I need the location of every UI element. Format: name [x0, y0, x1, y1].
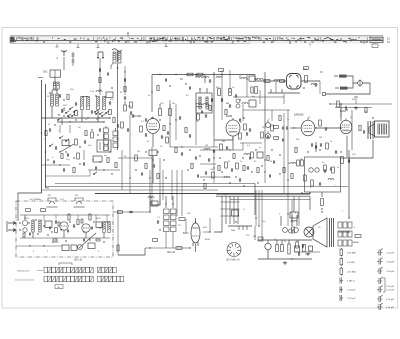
- resistor R62: [41, 209, 46, 212]
- inductor L2: [118, 52, 121, 63]
- ground: [283, 261, 287, 265]
- wire: [52, 89, 57, 91]
- wire: [346, 136, 348, 157]
- wire: [24, 215, 26, 220]
- wire: [152, 74, 255, 76]
- capacitor C54: [229, 104, 230, 107]
- capacitor C60: [335, 150, 336, 153]
- wire: [232, 137, 234, 150]
- resistor R2: [109, 110, 112, 115]
- junction: [117, 67, 118, 68]
- svg-text:osc: osc: [104, 155, 107, 157]
- shield coil: [47, 198, 58, 207]
- switch contact S4: [94, 110, 98, 113]
- wire: [199, 88, 201, 93]
- resistor R37: [359, 126, 361, 131]
- junction: [159, 119, 160, 120]
- wire: [46, 187, 50, 189]
- junction: [235, 176, 236, 177]
- resistor R45: [324, 165, 327, 171]
- FM tuner unit box: [16, 201, 113, 257]
- capacitor C62: [49, 227, 50, 230]
- resistor R101: [124, 87, 126, 92]
- resistor R6: [130, 102, 133, 108]
- capacitor C25: [320, 143, 321, 146]
- wire: [351, 110, 353, 150]
- wire: [216, 194, 310, 196]
- junction: [264, 80, 265, 81]
- resistor R28: [280, 80, 285, 83]
- wire: [85, 232, 87, 238]
- wire: [51, 106, 53, 118]
- junction: [152, 159, 153, 160]
- junction: [65, 151, 66, 152]
- junction: [89, 239, 90, 240]
- wire: [172, 196, 174, 208]
- wire: [315, 127, 340, 129]
- junction: [340, 151, 341, 152]
- resistor R64: [117, 245, 119, 251]
- wire: [46, 175, 90, 177]
- capacitor C18: [247, 166, 248, 169]
- inductor L21: [257, 79, 263, 81]
- junction: [103, 121, 104, 122]
- resistor R13: [166, 137, 169, 143]
- tube V3: [301, 118, 315, 136]
- resistor R65: [67, 95, 69, 100]
- junction: [63, 99, 64, 100]
- junction: [301, 192, 302, 193]
- wire: [214, 136, 233, 140]
- junction: [264, 171, 265, 172]
- resistor R70: [73, 168, 75, 173]
- switch contact S16: [101, 114, 105, 117]
- junction: [43, 245, 44, 246]
- capacitor C36: [55, 220, 56, 223]
- resistor R93: [283, 168, 285, 173]
- junction: [111, 173, 112, 174]
- legend symbol: [377, 286, 383, 293]
- junction: [255, 217, 256, 218]
- resistor R80: [204, 184, 206, 189]
- junction: [181, 146, 182, 147]
- resistor R18: [197, 114, 200, 120]
- junction: [79, 163, 80, 164]
- wire: [246, 90, 248, 97]
- wire: [106, 215, 108, 221]
- wire: [162, 170, 164, 200]
- inductor L25: [328, 179, 334, 181]
- resistor R35: [337, 101, 340, 107]
- wire: [270, 89, 272, 93]
- capacitor C22: [345, 106, 346, 109]
- legend symbol: [377, 277, 383, 284]
- tube socket (underside view): [227, 243, 241, 257]
- wire: [281, 89, 283, 93]
- capacitor C77: [201, 111, 202, 114]
- lamp LA1: [358, 80, 363, 87]
- switch contact S14: [73, 110, 77, 113]
- junction: [29, 245, 30, 246]
- wire: [169, 100, 171, 147]
- junction: [189, 247, 190, 248]
- junction: [279, 173, 280, 174]
- svg-text:Drucktasten-Kontakte: Drucktasten-Kontakte: [15, 279, 35, 282]
- wire: [55, 183, 255, 185]
- wire: [41, 80, 43, 193]
- resistor R4: [91, 132, 94, 138]
- speaker (bottom) LS2: [304, 227, 314, 237]
- junction: [95, 95, 96, 96]
- legend symbol: [340, 278, 343, 284]
- resistor R66: [113, 118, 115, 123]
- junction: [340, 127, 341, 128]
- junction: [151, 117, 152, 118]
- wire: [372, 140, 374, 158]
- wire: [38, 77, 43, 79]
- wire: [348, 150, 350, 218]
- switch table row 1: [44, 267, 116, 273]
- resistor R84: [153, 239, 158, 242]
- svg-text:UCH81: UCH81: [133, 114, 142, 118]
- legend symbol: [377, 258, 383, 265]
- wire: [159, 158, 161, 170]
- capacitor C61: [157, 220, 158, 223]
- output transformer T2: [368, 121, 373, 139]
- capacitor C68: [197, 175, 198, 178]
- junction: [109, 117, 110, 118]
- switch contact S11: [93, 172, 97, 175]
- junction: [279, 154, 280, 155]
- junction: [51, 231, 52, 232]
- wire: [54, 77, 56, 82]
- tube V4: [340, 118, 352, 133]
- wire: [69, 125, 71, 133]
- capacitor C14: [249, 128, 250, 131]
- wire: [259, 90, 261, 104]
- inductor L29: [39, 220, 41, 232]
- lamp coils: [334, 76, 339, 88]
- wire: [43, 215, 45, 221]
- wire: [97, 110, 99, 122]
- capacitor C5: [130, 111, 131, 114]
- legend symbol: [377, 303, 383, 310]
- junction: [87, 117, 88, 118]
- junction: [229, 149, 230, 150]
- svg-text:2M: 2M: [262, 127, 265, 129]
- resistor R48: [355, 235, 361, 238]
- junction: [59, 151, 60, 152]
- capacitor C65: [29, 233, 30, 236]
- inductor L26: [291, 221, 297, 223]
- inductor L17: [203, 104, 209, 106]
- wire: [290, 127, 301, 129]
- junction: [165, 177, 166, 178]
- wire: [103, 233, 105, 238]
- wire: [149, 200, 151, 212]
- dial sub marks: [56, 44, 100, 48]
- resistor R41: [271, 125, 274, 131]
- wire: [283, 113, 285, 193]
- inductor L3: [53, 82, 55, 89]
- switch contact S2: [65, 111, 69, 114]
- wire: [117, 63, 119, 150]
- junction: [175, 74, 176, 75]
- svg-text:SK1: SK1: [43, 71, 48, 74]
- inductor L13: [196, 77, 202, 79]
- wire: [88, 169, 120, 171]
- junction: [99, 227, 100, 228]
- wire: [287, 110, 289, 196]
- switch arm: [60, 144, 74, 152]
- resistor R22: [239, 133, 242, 139]
- capacitor C44: [99, 128, 100, 131]
- capacitor C2: [109, 101, 110, 104]
- inductor L14: [203, 77, 209, 79]
- wire: [237, 196, 239, 224]
- capacitor C48: [167, 131, 168, 134]
- junction: [315, 127, 316, 128]
- terminal board: [338, 222, 342, 228]
- resistor R77: [218, 166, 220, 171]
- inductor L19: [204, 149, 210, 151]
- aerial filter FL1: [50, 70, 61, 77]
- inductor L33: [241, 78, 247, 80]
- switch arm: [79, 233, 96, 248]
- wire: [347, 76, 358, 83]
- capacitor C34: [302, 244, 303, 247]
- wire: [20, 214, 110, 216]
- wire: [159, 104, 161, 109]
- junction: [54, 124, 55, 125]
- capacitor C79: [99, 68, 100, 71]
- capacitor C26: [324, 169, 325, 172]
- junction: [35, 219, 36, 220]
- resistor R5: [124, 105, 127, 111]
- wire: [95, 193, 310, 195]
- junction: [75, 119, 76, 120]
- wire: [169, 104, 171, 109]
- resistor R72: [145, 164, 147, 169]
- capacitor C32: [330, 167, 331, 170]
- capacitor C57: [231, 168, 232, 171]
- capacitor C50: [181, 152, 182, 155]
- wire: [295, 251, 320, 253]
- inductor L18: [242, 103, 248, 105]
- capacitor C63: [67, 230, 68, 233]
- wire: [176, 170, 178, 200]
- junction: [291, 258, 292, 259]
- junction: [47, 159, 48, 160]
- junction: [45, 151, 46, 152]
- junction: [92, 159, 93, 160]
- wire: [151, 75, 153, 105]
- tube V1: [147, 117, 160, 134]
- resistor R95: [115, 163, 117, 168]
- wire: [326, 83, 370, 94]
- svg-text:2M: 2M: [205, 145, 208, 147]
- inductor L31: [108, 222, 110, 233]
- capacitor C16: [213, 149, 214, 152]
- antenna A1: [61, 51, 67, 57]
- capacitor C8: [145, 133, 146, 136]
- svg-text:0.1 MΩ/: 0.1 MΩ/: [347, 262, 355, 264]
- capacitor C33: [319, 182, 320, 185]
- inductor L1: [113, 52, 116, 63]
- wire: [145, 247, 190, 249]
- resistor R100: [99, 78, 101, 83]
- capacitor C47: [145, 118, 146, 121]
- capacitor C39: [59, 94, 60, 97]
- capacitor C7: [67, 153, 68, 156]
- resistor R44: [279, 116, 281, 121]
- wire: [77, 215, 79, 219]
- capacitor C30: [282, 139, 283, 142]
- wire: [301, 80, 320, 82]
- wire: [203, 231, 210, 233]
- junction: [321, 208, 322, 209]
- junction: [255, 149, 256, 150]
- wire: [221, 70, 223, 120]
- wire: [296, 215, 298, 226]
- junction: [239, 99, 240, 100]
- resistor R51: [179, 218, 185, 221]
- wire: [271, 110, 273, 121]
- resistor R86: [81, 219, 83, 223]
- resistor R34: [304, 175, 307, 181]
- wire: [195, 100, 197, 145]
- shield coil: [74, 198, 85, 207]
- junction: [135, 169, 136, 170]
- wire: [240, 142, 262, 144]
- wire: [63, 57, 65, 70]
- wire: [340, 108, 342, 122]
- wire: [233, 96, 284, 98]
- antenna A2 (FM dipole): [97, 52, 103, 58]
- junction: [255, 78, 256, 79]
- resistor R30: [304, 67, 309, 70]
- wire: [56, 90, 58, 94]
- capacitor C59: [311, 143, 312, 146]
- svg-text:EABC80: EABC80: [294, 114, 304, 117]
- inductor L9: [97, 97, 100, 110]
- wire: [118, 248, 145, 255]
- svg-text:C 50 pF/: C 50 pF/: [386, 253, 395, 255]
- junction: [235, 221, 236, 222]
- capacitor C15: [226, 146, 227, 149]
- wire: [45, 84, 47, 188]
- capacitor C19: [205, 171, 206, 174]
- switch contact S7: [65, 139, 69, 142]
- wire: [319, 81, 321, 94]
- capacitor C78: [239, 119, 240, 122]
- resistor R27: [264, 80, 270, 83]
- capacitor C24: [363, 130, 364, 133]
- wire: [221, 196, 223, 224]
- junction: [246, 78, 247, 79]
- wire: [213, 72, 215, 135]
- junction: [309, 192, 310, 193]
- wire: [176, 200, 178, 216]
- wire: [246, 75, 248, 91]
- capacitor C56: [208, 158, 209, 161]
- wire: [283, 94, 285, 104]
- wire: [51, 90, 53, 94]
- wire: [170, 146, 218, 148]
- resistor R74: [185, 128, 187, 133]
- wire: [42, 189, 219, 191]
- inductor L28: [32, 220, 34, 232]
- resistor R78: [243, 166, 245, 171]
- svg-text:EC92: EC92: [24, 218, 29, 220]
- resistor R82: [365, 108, 367, 113]
- junction: [213, 167, 214, 168]
- capacitor C20: [315, 83, 316, 86]
- svg-text:1M: 1M: [172, 103, 175, 105]
- capacitor C45: [83, 162, 84, 165]
- wire: [195, 75, 197, 78]
- resistor R38: [326, 143, 329, 149]
- wire: [298, 197, 300, 227]
- resistor R24: [236, 163, 239, 169]
- junction: [251, 171, 252, 172]
- wire: [117, 52, 119, 62]
- junction: [213, 74, 214, 75]
- wire: [117, 210, 119, 255]
- junction: [258, 225, 259, 226]
- switch contact S17: [105, 111, 109, 114]
- junction: [98, 117, 99, 118]
- capacitor C49: [153, 164, 154, 167]
- resistor R42: [274, 126, 279, 129]
- svg-text:0.25 MΩ/: 0.25 MΩ/: [347, 272, 356, 274]
- wire: [254, 190, 256, 215]
- junction: [28, 222, 29, 223]
- svg-text:283V: 283V: [352, 99, 358, 101]
- inductor L23: [311, 84, 317, 86]
- inductor L12: [206, 97, 208, 109]
- wire: [340, 104, 342, 117]
- resistor R17: [229, 89, 232, 96]
- capacitor C76: [189, 87, 190, 90]
- wire: [280, 216, 282, 226]
- junction: [69, 145, 70, 146]
- inductor L20: [244, 154, 250, 156]
- inductor L24: [290, 163, 296, 165]
- trimmer chain: [72, 52, 75, 66]
- resistor R43: [274, 137, 279, 140]
- capacitor C71: [269, 175, 270, 178]
- wire: [281, 240, 283, 245]
- resistor R83: [291, 174, 293, 179]
- wire: [321, 192, 323, 197]
- junction: [203, 179, 204, 180]
- svg-text:5W: 5W: [296, 241, 299, 243]
- svg-text:1M: 1M: [319, 137, 322, 139]
- wire: [261, 237, 263, 240]
- junction: [261, 165, 262, 166]
- ground: [354, 106, 358, 110]
- legend symbol: [377, 267, 383, 274]
- resistor R14: [187, 73, 193, 76]
- inductor L10: [103, 97, 106, 110]
- capacitor C9: [132, 114, 133, 117]
- inductor L7: [81, 97, 84, 110]
- svg-text:1 MΩ ±/: 1 MΩ ±/: [347, 281, 355, 283]
- junction: [229, 182, 230, 183]
- junction: [149, 211, 150, 212]
- wire: [124, 101, 126, 105]
